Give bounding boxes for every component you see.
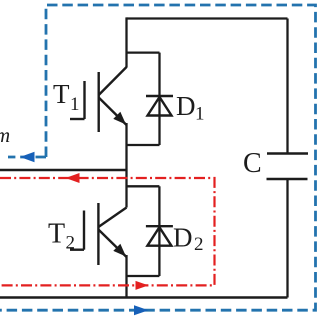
wire D1 top tap [127,51,160,53]
wire T1 collector lead [125,17,127,67]
svg-text:1: 1 [70,94,80,115]
wire capacitor top lead [286,19,288,154]
label D2 [173,223,204,256]
transistor T1 [70,67,130,132]
node blue arrow left (exit at y=157) [20,152,35,162]
wire D2 branch upper [158,186,160,245]
label T1 [53,79,80,115]
svg-text:1: 1 [195,104,205,125]
diode D2 [146,226,173,246]
wire T1 emitter lead [125,123,127,170]
label m (clipped magnetizing-current label) [0,123,10,147]
wire midpoint rail [0,169,127,172]
node blue arrow right (bottom rail direction) [134,305,149,315]
wire D1 branch upper [158,53,160,116]
wire bottom rail [0,296,288,299]
wire capacitor bottom lead [286,179,288,298]
wire D2 branch lower [158,246,160,276]
svg-text:T: T [53,79,70,109]
wire top rail [127,17,288,19]
svg-text:D: D [176,91,196,121]
transistor T2 [70,203,130,265]
wire T2 emitter lead [125,255,127,298]
svg-text:D: D [173,223,193,253]
svg-text:2: 2 [194,234,204,255]
wire D2 top tap [127,185,160,187]
wire D1 bottom tap [127,144,160,146]
label C [243,148,262,179]
label D1 [176,91,205,125]
label T2 [48,219,75,254]
diode D1 [146,96,173,116]
node red arrow right (bottom edge direction) [136,281,149,290]
capacitor C [267,154,309,180]
svg-text:T: T [48,219,65,250]
wire D1 branch lower [158,116,160,146]
node red arrow left (top edge direction) [66,173,80,183]
node red loop (freewheeling current path, dash-dot) [0,178,215,285]
svg-text:2: 2 [66,233,76,254]
wire T2 collector lead [125,170,127,208]
wire D2 bottom tap [127,275,160,277]
svg-text:m: m [0,123,10,147]
svg-text:C: C [243,148,262,179]
